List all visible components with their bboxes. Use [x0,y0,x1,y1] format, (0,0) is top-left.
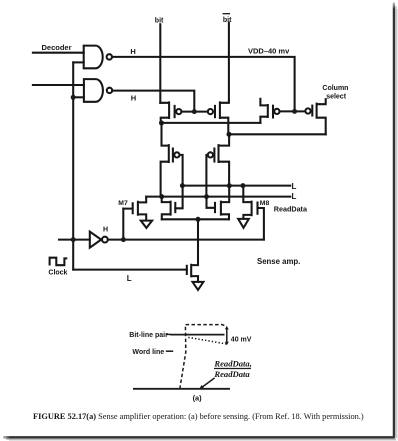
svg-text:(a): (a) [193,394,203,403]
node junction bus-U2 [71,95,76,100]
schematic labels [42,17,349,283]
frame fade bottom-left [0,435,10,441]
svg-text:L: L [292,192,297,201]
timing diagram [133,325,251,390]
NAND gate U2 [84,79,103,102]
40mV measure arrow [226,328,228,344]
svg-text:ReadData: ReadData [274,204,308,213]
wire NAND U1 input B from vertical bus [73,61,84,63]
bit-line level solid [170,334,224,336]
svg-text:Column: Column [322,85,348,92]
svg-text:H: H [131,93,136,102]
svg-text:H: H [103,227,108,234]
wire tail gate (L) [73,269,187,271]
label connector dash wordline [166,350,173,352]
transistor M7 [123,203,132,213]
node rail B junction [226,132,231,137]
ReadData underline/overline [214,368,251,370]
wire latch rail 1 (node L upper) [182,185,290,187]
transistor T2 precharge PMOS right [208,109,213,114]
ground arrow under M8 [238,219,249,228]
node gate junction left pair [181,111,207,113]
transistor N1 latch NMOS left [162,197,171,220]
svg-text:bit: bit [223,17,232,24]
inverter U3 [59,239,90,241]
wire latch common source rail [162,218,229,220]
node gate junction right pair [292,109,297,114]
arrow from ReadData to axis [202,378,215,388]
wire NAND U2 input B [73,96,84,98]
transistor T3 PMOS [260,99,267,123]
wire bit-bar line [228,23,230,101]
frame shadow bottom [3,437,397,440]
wire NAND U2 output (H) down to precharge gates [112,91,194,112]
wire inverter output H [108,239,264,241]
wire NAND U1 output (VDD-40mv precharge line) [112,57,295,112]
transistor N2 latch NMOS right [207,197,216,213]
transistor T4 column select PMOS [305,108,310,113]
wire bit line [159,24,161,103]
svg-text:bit: bit [155,18,164,25]
svg-text:ReadData,: ReadData, [213,359,251,369]
frame shadow right [394,3,397,439]
NAND gate U1 [84,46,103,69]
svg-text:ReadData: ReadData [213,369,250,379]
svg-text:Sense amp.: Sense amp. [257,257,300,266]
overline of bit-bar label [223,13,229,15]
transistor T5 cross-coupled PMOS left [161,123,169,197]
svg-text:select: select [326,93,347,100]
svg-text:M7: M7 [118,200,128,207]
label connector dash bitline [166,333,170,335]
wire rail B [229,133,326,135]
wire latch rail 2 (node L lower) [146,196,290,198]
svg-text:Bit-line pair: Bit-line pair [129,332,168,339]
svg-text:Decoder: Decoder [42,43,72,52]
svg-text:FIGURE 52.17(a) Sense amplifi: FIGURE 52.17(a) Sense amplifier operatio… [33,412,364,421]
transistor M8 [243,186,251,219]
svg-text:Word line: Word line [132,349,164,356]
transistor T6 cross-coupled PMOS right [219,134,230,185]
dashed word line trace [180,325,227,389]
svg-text:M8: M8 [260,200,270,207]
svg-text:Clock: Clock [48,270,67,277]
svg-text:H: H [130,47,135,56]
wire gate row right pair [280,110,306,112]
wire NAND U2 input A [33,84,84,86]
transistor Q tail NMOS [186,266,188,274]
svg-text:L: L [292,182,297,191]
wire decoder input to NAND U1 [33,52,84,54]
wire M7 gate drop [122,209,124,240]
wire precharge rail A [162,122,261,124]
transistor T1 precharge PMOS left [160,102,169,123]
ground arrow under M7 [141,221,152,228]
wire vertical left bus [72,62,74,269]
node rail A junction [159,120,164,125]
svg-text:VDD–40 mv: VDD–40 mv [248,47,290,56]
clock waveform icon [50,258,67,266]
svg-text:40 mV: 40 mV [231,336,252,343]
axis line [133,388,230,390]
ground arrow under tail [193,282,204,290]
dotted bit-line falling trace [188,337,226,344]
svg-text:L: L [127,274,132,283]
frame fade top-right [391,0,398,9]
